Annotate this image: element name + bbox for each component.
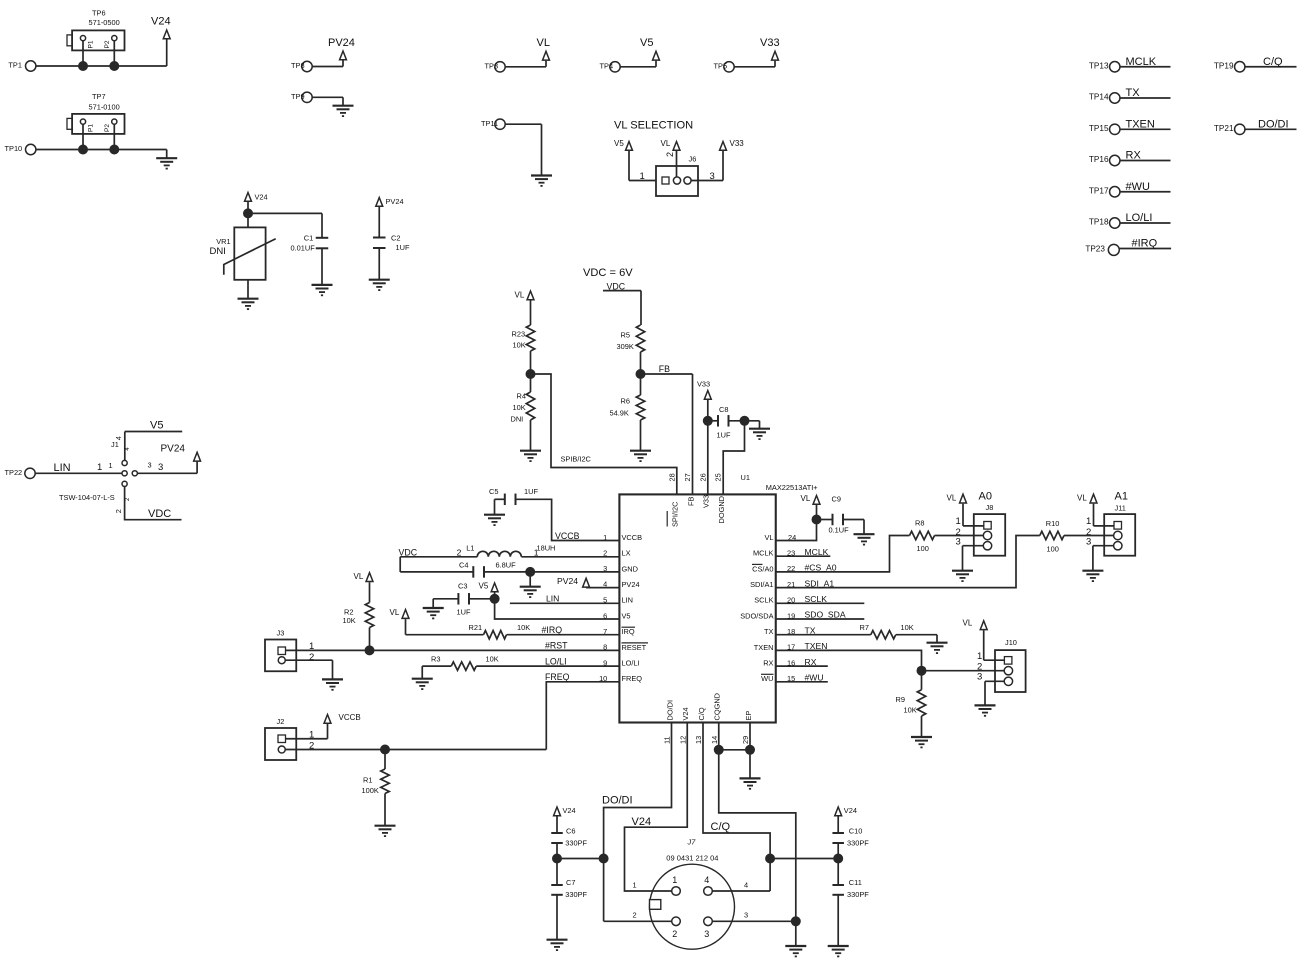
test point TP18: [1089, 218, 1120, 229]
ground (R1): [375, 826, 396, 836]
svg-text:0.01UF: 0.01UF: [291, 243, 316, 252]
wire TXEN to R9: [921, 671, 923, 690]
svg-text:VL: VL: [764, 533, 773, 542]
svg-text:FREQ: FREQ: [622, 674, 643, 683]
power symbol VL (J11 pin1): [1077, 493, 1097, 503]
wire VL to R21: [406, 619, 484, 635]
wire C8 left: [708, 420, 718, 422]
resistor R23 10K: [512, 325, 535, 351]
ground (C7): [547, 940, 568, 950]
wire R6-GND: [640, 420, 642, 451]
header J1 TSW-104-07-L-S: [59, 440, 137, 502]
wire net RX (TP16): [1120, 150, 1171, 162]
U1 pin 12 V24 label: [678, 707, 690, 744]
svg-text:SPIB/I2C: SPIB/I2C: [561, 454, 592, 463]
svg-text:EP: EP: [744, 711, 753, 721]
resistor R21 10K: [469, 623, 531, 639]
test point TP16: [1089, 155, 1120, 166]
svg-text:J8: J8: [986, 503, 994, 512]
wire net TP10-GND: [36, 150, 167, 159]
svg-text:19: 19: [787, 611, 795, 620]
header J11: [1104, 504, 1135, 556]
svg-text:3: 3: [956, 536, 961, 547]
wire TP6 P1 lead: [82, 41, 84, 66]
wire net GND pin3: [484, 564, 619, 573]
svg-text:LIN: LIN: [54, 462, 71, 474]
test point TP17: [1089, 186, 1120, 197]
wire V5 arrow to junction: [494, 593, 496, 599]
wire C3 left to GND: [433, 599, 458, 608]
svg-text:IRQ: IRQ: [622, 627, 635, 636]
junction SPIB/I2C: [526, 369, 536, 379]
junction TXEN/R9/J10: [917, 666, 927, 676]
svg-text:24: 24: [788, 533, 796, 542]
svg-text:C8: C8: [719, 405, 728, 414]
svg-text:TX: TX: [1126, 87, 1141, 99]
svg-text:571-0500: 571-0500: [89, 18, 120, 27]
wire net #WU pin15: [776, 673, 828, 684]
svg-text:10K: 10K: [901, 623, 914, 632]
title VDC = 6V: [583, 267, 633, 279]
power symbol VL (J6 pin2): [661, 139, 680, 150]
wire net TP3-VL: [505, 61, 546, 67]
svg-text:V24: V24: [563, 806, 576, 815]
wire GND stub: [529, 572, 531, 587]
svg-text:11: 11: [663, 736, 672, 744]
svg-text:2: 2: [672, 929, 677, 939]
svg-text:9: 9: [603, 658, 607, 667]
svg-text:13: 13: [694, 736, 703, 744]
svg-text:VL: VL: [515, 291, 525, 300]
svg-text:54.9K: 54.9K: [610, 408, 629, 417]
U1 pin 20 SCLK label: [754, 596, 773, 605]
wire C1-GND: [321, 248, 323, 285]
svg-text:DO/DI: DO/DI: [1258, 118, 1289, 130]
wire TP7 P1 lead: [82, 124, 84, 149]
power symbol VL (R2): [354, 572, 373, 582]
wire net #IRQ (TP23): [1119, 238, 1171, 250]
resistor R4 10K DNI: [511, 392, 535, 424]
ground (R4): [520, 451, 541, 461]
wire C11-GND: [837, 895, 839, 946]
svg-text:TP16: TP16: [1089, 155, 1109, 164]
junction C/Q: [765, 854, 775, 864]
svg-text:29: 29: [741, 736, 750, 744]
svg-text:RX: RX: [763, 659, 773, 668]
svg-text:J11: J11: [1115, 504, 1126, 513]
U1 pin 22 CS/A0 label: [752, 564, 774, 573]
junction C4/GND: [525, 567, 535, 577]
svg-text:C/Q: C/Q: [1263, 56, 1283, 68]
svg-text:VCCB: VCCB: [622, 533, 643, 542]
resistor R5 309K: [617, 325, 645, 352]
svg-text:C9: C9: [832, 494, 841, 503]
svg-text:1UF: 1UF: [524, 487, 538, 496]
wire net TP1-V24: [36, 40, 167, 67]
U1 pin 1 VCCB label: [622, 533, 643, 542]
svg-text:C5: C5: [489, 487, 498, 496]
svg-text:10K: 10K: [904, 706, 917, 715]
U1 pin 19 SDO/SDA label: [740, 611, 773, 620]
svg-text:J1: J1: [111, 440, 119, 449]
svg-text:P1: P1: [88, 124, 95, 132]
svg-text:V24: V24: [632, 816, 652, 828]
wire J11 pin3 to GND: [1086, 536, 1114, 570]
junction TP7 P1: [78, 145, 88, 155]
wire C3 right: [469, 598, 495, 600]
wire J7 pin3 lead: [712, 911, 795, 922]
wire net #WU (TP17): [1120, 181, 1171, 193]
svg-text:10K: 10K: [486, 654, 499, 663]
svg-text:10K: 10K: [343, 616, 356, 625]
svg-text:V24: V24: [844, 806, 857, 815]
wire C6-C7: [556, 843, 558, 885]
wire net #RST pin8: [286, 641, 620, 652]
wire net FREQ pin10: [545, 672, 619, 749]
U1 pin 7 IRQ label: [622, 627, 636, 636]
svg-text:2: 2: [114, 509, 123, 513]
wire R2 to RESET: [369, 628, 371, 651]
power symbol PV24 (TP8): [328, 37, 355, 60]
wire VDC-R5: [640, 291, 642, 325]
power symbol V33 (pin26): [697, 380, 711, 400]
wire net #IRQ pin7: [507, 625, 620, 636]
svg-text:VL: VL: [537, 37, 550, 49]
svg-text:3: 3: [744, 911, 748, 920]
wire V24-C6: [556, 817, 558, 833]
svg-text:PV24: PV24: [328, 37, 355, 49]
ground (C3): [423, 608, 444, 618]
U1 pin 23 MCLK label: [753, 549, 774, 558]
svg-text:571-0100: 571-0100: [89, 103, 120, 112]
power symbol PV24 (C2): [376, 197, 404, 206]
wire net FB to pin27: [641, 364, 693, 494]
power symbol V24 (C10): [835, 806, 857, 816]
junction J2/R1: [380, 745, 390, 755]
wire VDC down to C4: [400, 557, 473, 572]
svg-text:MCLK: MCLK: [805, 547, 829, 557]
junction V24/VR1/C1: [243, 208, 253, 218]
svg-text:TP4: TP4: [600, 61, 614, 70]
wire R10 to J11 pin2: [1064, 535, 1114, 537]
svg-text:18: 18: [787, 627, 795, 636]
svg-text:C1: C1: [304, 233, 313, 242]
svg-text:14: 14: [710, 736, 719, 744]
U1 pin 18 TX label: [764, 627, 774, 636]
svg-text:TP14: TP14: [1089, 93, 1109, 102]
wire net TXEN (TP15): [1120, 118, 1171, 130]
svg-text:P2: P2: [104, 124, 111, 132]
svg-text:TP1: TP1: [8, 61, 22, 70]
wire net DO/DI pin11: [602, 723, 672, 922]
svg-text:18UH: 18UH: [537, 544, 556, 553]
svg-text:1: 1: [309, 641, 314, 652]
wire TP6 P2 lead: [113, 41, 115, 66]
wire J1 pin2 to VDC: [114, 487, 182, 520]
wire TP7 P2 lead: [113, 124, 115, 149]
capacitor C10 330PF: [832, 826, 869, 847]
svg-text:R21: R21: [469, 623, 483, 632]
header J10: [995, 638, 1026, 692]
svg-text:3: 3: [704, 929, 709, 939]
U1 pin 5 LIN label: [622, 596, 634, 605]
power symbol V24 (C6): [554, 806, 576, 816]
resistor R2 10K: [343, 603, 374, 628]
svg-text:2: 2: [309, 652, 314, 663]
wire J3 pin2 to GND: [285, 652, 332, 680]
power symbol VL (J10 pin1): [963, 618, 988, 629]
svg-text:3: 3: [158, 462, 163, 473]
svg-text:VL: VL: [354, 572, 364, 581]
wire R4-GND: [530, 420, 532, 451]
ground (R9): [911, 737, 932, 747]
svg-text:DNI: DNI: [511, 414, 524, 423]
net label V5 (J1 pin4): [125, 420, 182, 432]
test point TP11: [481, 119, 505, 130]
svg-text:#CS_A0: #CS_A0: [805, 563, 837, 573]
svg-text:TP8: TP8: [291, 61, 305, 70]
ground (C2): [369, 280, 390, 290]
svg-text:1UF: 1UF: [717, 431, 731, 440]
wire C7-GND: [556, 895, 558, 940]
svg-text:SCLK: SCLK: [754, 596, 773, 605]
wire J6 pin2: [665, 151, 677, 177]
svg-text:16: 16: [787, 658, 795, 667]
svg-text:TP21: TP21: [1214, 124, 1234, 133]
U1 pin 8 RESET label: [622, 643, 649, 652]
svg-text:LIN: LIN: [546, 594, 559, 604]
capacitor C2 1UF: [373, 233, 410, 252]
svg-text:VL: VL: [390, 608, 400, 617]
U1 pin 3 GND label: [622, 564, 638, 573]
svg-text:FB: FB: [686, 496, 695, 506]
power symbol VL (R23): [515, 291, 534, 300]
svg-text:V33: V33: [730, 139, 745, 148]
svg-text:09 0431 212 04: 09 0431 212 04: [666, 854, 718, 863]
wire J8 pin3 to GND: [956, 536, 984, 570]
svg-text:SDI/A1: SDI/A1: [750, 580, 773, 589]
junction TP6 P1: [78, 61, 88, 71]
svg-text:1: 1: [603, 533, 607, 542]
svg-text:WU: WU: [761, 674, 773, 683]
test point TP22: [5, 468, 36, 479]
capacitor C9 0.1UF: [829, 494, 850, 534]
svg-text:LO/LI: LO/LI: [622, 659, 640, 668]
svg-text:FREQ: FREQ: [545, 672, 570, 682]
svg-text:R1: R1: [363, 776, 372, 785]
svg-text:330PF: 330PF: [847, 890, 869, 899]
wire net SCLK pin20: [776, 594, 865, 605]
svg-text:A1: A1: [1115, 491, 1128, 503]
svg-text:#RST: #RST: [545, 641, 568, 651]
svg-text:R5: R5: [621, 330, 630, 339]
U1 pin 9 LO/LI label: [622, 659, 640, 668]
resistor R7 10K: [860, 623, 914, 639]
svg-text:SPI/I2C: SPI/I2C: [671, 501, 680, 527]
wire net MCLK pin23: [776, 547, 831, 558]
test point TP3: [485, 61, 506, 72]
ground (EP): [740, 778, 761, 788]
svg-text:VDC = 6V: VDC = 6V: [583, 267, 633, 279]
wire VL to R2: [369, 582, 371, 602]
power symbol V33 (TP5): [760, 37, 780, 60]
wire net TP5-V33: [734, 61, 775, 67]
wire net MCLK (TP13): [1120, 56, 1171, 68]
svg-text:1UF: 1UF: [396, 243, 410, 252]
svg-text:SDO/SDA: SDO/SDA: [740, 611, 773, 620]
test point TP15: [1089, 124, 1120, 135]
svg-text:CS/A0: CS/A0: [752, 564, 773, 573]
svg-text:TXEN: TXEN: [1126, 118, 1155, 130]
wire net SPIB/I2C to pin28: [531, 374, 677, 494]
svg-text:TP15: TP15: [1089, 124, 1109, 133]
svg-text:2: 2: [665, 152, 675, 157]
junction CQGND/J7pin3: [791, 916, 801, 926]
test point TP4: [600, 61, 621, 72]
svg-text:1: 1: [672, 875, 677, 885]
junction C6/DO-DI: [552, 854, 562, 864]
svg-text:TP19: TP19: [1214, 61, 1234, 70]
ground (C9): [854, 534, 875, 544]
junction pin14/EP: [714, 745, 724, 755]
U1 pin 17 TXEN label: [754, 643, 774, 652]
svg-text:LO/LI: LO/LI: [545, 656, 567, 666]
wire C/Q to C10/C11: [770, 858, 838, 860]
wire net PV24 pin4: [586, 580, 619, 589]
U1 pin 4 PV24 label: [622, 580, 640, 589]
svg-text:TP17: TP17: [1089, 186, 1109, 195]
wire V24-VR1-C1: [248, 202, 322, 238]
svg-text:1: 1: [633, 880, 637, 889]
svg-text:TP10: TP10: [5, 144, 23, 153]
svg-text:1: 1: [109, 461, 113, 470]
U1 pin 14 CQGND label: [710, 693, 722, 744]
power symbol V33 (J6 pin3): [720, 139, 745, 150]
wire J1 pin3 to PV24: [137, 461, 197, 474]
svg-text:4: 4: [704, 875, 709, 885]
wire C9 left: [817, 519, 833, 521]
wire net C/Q pin13: [703, 723, 770, 892]
wire J10 pin3 to GND: [977, 671, 1004, 705]
wire R23-R4: [530, 351, 532, 392]
svg-text:L1: L1: [466, 544, 474, 553]
svg-text:TX: TX: [764, 627, 774, 636]
ground (J3): [322, 679, 343, 689]
wire net LO/LI (TP18): [1120, 212, 1171, 224]
svg-text:TXEN: TXEN: [754, 643, 774, 652]
title VL SELECTION: [614, 120, 693, 132]
J10 pin2 number: [977, 662, 982, 673]
svg-text:R8: R8: [915, 518, 924, 527]
svg-text:#WU: #WU: [805, 673, 824, 683]
svg-text:C/Q: C/Q: [697, 707, 706, 720]
power symbol V24 (VR1): [245, 193, 268, 202]
svg-text:1: 1: [309, 730, 314, 741]
svg-text:2: 2: [457, 547, 462, 557]
svg-text:VL: VL: [661, 139, 671, 148]
svg-text:2: 2: [633, 911, 637, 920]
svg-text:17: 17: [787, 643, 795, 652]
svg-text:3: 3: [710, 171, 715, 182]
U1 pin 2 LX label: [622, 549, 631, 558]
svg-text:3: 3: [148, 461, 152, 470]
capacitor C8 1UF: [717, 405, 731, 440]
svg-text:V33: V33: [702, 495, 711, 508]
svg-text:4: 4: [603, 580, 607, 589]
svg-text:SCLK: SCLK: [805, 594, 828, 604]
label A1: [1115, 491, 1128, 503]
svg-text:PV24: PV24: [557, 576, 578, 586]
wire net CQGND pin14: [719, 723, 796, 947]
label A0: [979, 491, 992, 503]
svg-text:C10: C10: [849, 826, 863, 835]
svg-text:22: 22: [787, 564, 795, 573]
svg-text:DO/DI: DO/DI: [602, 795, 633, 807]
svg-text:12: 12: [678, 736, 687, 744]
wire C8 right to GND: [729, 421, 760, 429]
svg-text:V24: V24: [681, 707, 690, 720]
ground (J10): [975, 705, 996, 715]
svg-text:7: 7: [603, 627, 607, 636]
test point TP5: [714, 61, 735, 72]
svg-text:FB: FB: [659, 364, 670, 374]
resistor R3 10K: [431, 654, 499, 670]
svg-text:3: 3: [977, 671, 982, 682]
svg-text:DOGND: DOGND: [717, 496, 726, 524]
svg-text:6: 6: [603, 611, 607, 620]
capacitor C1 0.01UF: [291, 233, 329, 252]
junction TP6 P2: [109, 61, 119, 71]
svg-text:LIN: LIN: [622, 596, 634, 605]
ground (R6): [630, 451, 651, 461]
U1 pin 24 VL label: [764, 533, 773, 542]
svg-text:27: 27: [683, 473, 692, 481]
svg-text:C/Q: C/Q: [711, 821, 731, 833]
power symbol VCCB (J2 pin1): [324, 713, 361, 724]
wire TXEN to J10 pin2: [922, 670, 1005, 672]
wire net TX (TP14): [1120, 87, 1171, 99]
wire net V33 to pin26: [707, 400, 709, 494]
power symbol V5 (J6 pin1): [614, 139, 632, 150]
svg-text:V5: V5: [479, 582, 489, 591]
wire J11 pin1: [1086, 504, 1114, 527]
U1 pin 13 C/Q label: [694, 707, 706, 744]
svg-text:TP13: TP13: [1089, 61, 1109, 70]
svg-text:VL: VL: [801, 494, 811, 503]
test point TP19: [1214, 61, 1245, 72]
svg-text:VCCB: VCCB: [339, 713, 361, 722]
wire net TP11-GND: [505, 124, 541, 175]
net label VDC (R5): [603, 281, 641, 291]
header J6: [656, 155, 698, 197]
svg-text:R7: R7: [860, 623, 869, 632]
junction V33/C8: [703, 416, 713, 426]
svg-text:V33: V33: [760, 37, 780, 49]
junction C10/C11: [833, 854, 843, 864]
svg-text:VL: VL: [1077, 493, 1087, 502]
svg-text:330PF: 330PF: [565, 890, 587, 899]
svg-text:3: 3: [1086, 536, 1091, 547]
svg-text:26: 26: [698, 473, 707, 481]
svg-text:R3: R3: [431, 654, 440, 663]
wire C10-C11: [837, 843, 839, 885]
net label VDC (L1): [399, 548, 478, 558]
wire J2-R1: [384, 750, 386, 770]
junction C8/DOGND: [740, 416, 750, 426]
capacitor C6 330PF: [551, 826, 587, 847]
wire VR1-GND: [247, 280, 249, 299]
U1 pin 26 V33 label: [698, 473, 710, 508]
